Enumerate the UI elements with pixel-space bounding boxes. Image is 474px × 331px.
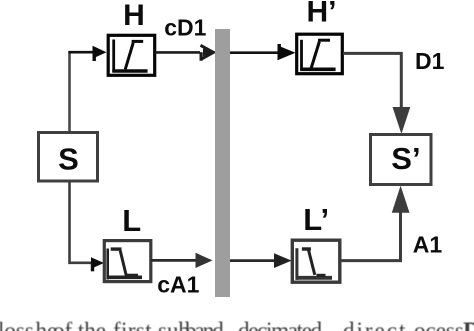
svg-text:cA1: cA1	[157, 271, 199, 297]
svg-text:S: S	[58, 142, 79, 177]
svg-text:band: band	[185, 318, 224, 331]
svg-text:of the: of the	[53, 318, 106, 331]
svg-text:D1: D1	[415, 48, 445, 74]
label S'	[391, 141, 420, 176]
label D1	[415, 48, 445, 74]
wire bar to L' arrow	[230, 259, 276, 262]
label L'	[303, 202, 329, 237]
arrowhead into L'	[274, 253, 292, 268]
svg-text:cD1: cD1	[164, 14, 206, 40]
label S	[58, 142, 79, 177]
arrowhead into H'	[278, 44, 296, 60]
wire L to downsampling bar	[151, 259, 197, 262]
svg-text:D: D	[463, 318, 474, 331]
svg-text:H’: H’	[307, 0, 337, 28]
high-pass icon in H'	[300, 40, 335, 71]
svg-text:direct: direct	[343, 318, 407, 331]
low-pass icon in L	[107, 249, 143, 280]
label cA1	[157, 271, 199, 297]
arrowhead into S' bottom	[392, 186, 410, 213]
svg-text:A1: A1	[413, 232, 443, 258]
label A1	[413, 232, 443, 258]
block S	[39, 133, 98, 182]
block H	[108, 35, 155, 75]
low-pass icon in L'	[296, 248, 333, 280]
wire S top to corner	[68, 53, 71, 132]
svg-text:first: first	[113, 318, 152, 331]
downsampling bar	[215, 29, 230, 297]
svg-text:S’: S’	[391, 141, 420, 176]
caption (cropped at bottom)	[0, 318, 474, 331]
high-pass icon in H	[112, 40, 147, 73]
arrowhead into bar (top)	[200, 45, 214, 60]
arrowhead into L	[91, 257, 104, 271]
label H'	[307, 0, 337, 28]
wire H' to S' top	[343, 53, 401, 108]
wire L' to S' bottom	[341, 212, 401, 261]
wire S bottom to L arrow	[70, 182, 93, 263]
wire H to downsampling bar	[155, 51, 200, 54]
svg-text:L: L	[122, 203, 141, 238]
block L	[104, 241, 151, 282]
block H'	[297, 34, 343, 73]
arrowhead into H	[93, 46, 107, 61]
svg-text:ocess: ocess	[414, 318, 464, 331]
wire corner to H arrow	[68, 51, 94, 54]
wire bar to H' arrow	[230, 51, 279, 54]
svg-text:loss: loss	[0, 318, 34, 331]
label L	[122, 203, 141, 238]
label H	[123, 0, 145, 32]
label cD1	[164, 14, 206, 40]
block S'	[371, 135, 432, 185]
arrowhead into S' top	[393, 107, 411, 134]
svg-text:H: H	[123, 0, 145, 32]
arrowhead into bar (bottom)	[196, 253, 213, 268]
svg-text:decimated: decimated	[238, 318, 323, 331]
svg-text:L’: L’	[303, 202, 329, 237]
block L'	[292, 240, 340, 282]
